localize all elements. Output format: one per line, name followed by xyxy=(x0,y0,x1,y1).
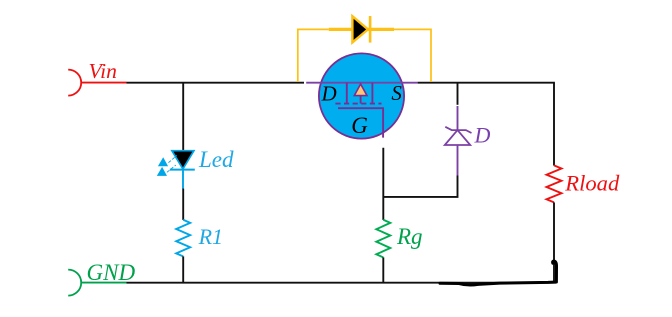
svg-text:D: D xyxy=(474,123,491,148)
diode D anode lead (purple) xyxy=(457,145,459,176)
diode D cathode lead (purple) xyxy=(457,106,459,130)
diode D triangle xyxy=(445,130,470,145)
LED cathode bar xyxy=(170,169,195,171)
wire top rail left (Vin node to MOSFET drain) xyxy=(127,82,305,84)
wire top rail right (MOSFET source to Rload corner) xyxy=(418,82,555,84)
body diode loop right wire xyxy=(394,29,431,82)
wire Rload to bottom corner xyxy=(553,202,555,282)
LED triangle xyxy=(172,151,194,169)
svg-text:D: D xyxy=(321,81,337,105)
wire GND green lead xyxy=(81,282,126,284)
svg-text:Rload: Rload xyxy=(564,171,620,196)
MOSFET Q1 body circle xyxy=(319,53,404,138)
LED light arrow 2 xyxy=(157,165,176,176)
wire gate branch (black) xyxy=(382,148,384,220)
svg-text:Rg: Rg xyxy=(396,224,423,249)
wire LED cathode to R1 xyxy=(182,189,184,220)
terminal GND arc xyxy=(68,270,81,296)
MOSFET channel dashed line xyxy=(335,103,381,105)
wire left branch (top rail to LED anode) xyxy=(182,83,184,151)
wire Rg to GND rail xyxy=(382,257,384,282)
body diode thick lead xyxy=(329,28,394,31)
body diode loop left wire (orange) xyxy=(298,29,329,82)
svg-text:S: S xyxy=(391,81,402,105)
wire drain-source rail through MOSFET (purple) xyxy=(306,82,417,84)
MOSFET drain lead xyxy=(346,83,348,104)
diode D cathode bar (schottky) xyxy=(445,127,471,133)
resistor Rload xyxy=(547,165,562,202)
svg-text:GND: GND xyxy=(87,260,136,285)
MOSFET source lead xyxy=(371,83,373,104)
body diode cathode bar xyxy=(369,16,372,43)
resistor R1 xyxy=(176,220,190,257)
wire Rload branch top xyxy=(553,83,555,166)
MOSFET gate bar and gate lead xyxy=(338,108,383,137)
svg-text:R1: R1 xyxy=(198,224,223,249)
svg-text:Vin: Vin xyxy=(89,59,117,83)
thick marker stroke over GND return xyxy=(440,261,557,285)
terminal Vin arc xyxy=(68,70,81,96)
MOSFET body arrow xyxy=(354,84,367,104)
LED light arrow 1 xyxy=(158,155,177,166)
wire Vin red lead xyxy=(81,82,126,84)
LED cathode stem xyxy=(182,170,184,189)
svg-text:G: G xyxy=(351,113,368,138)
wire R1 to GND rail xyxy=(182,256,184,282)
wire bottom rail xyxy=(127,282,557,284)
resistor Rg xyxy=(376,220,390,258)
wire gate to diode D branch xyxy=(383,176,457,197)
wire diode D to top rail xyxy=(457,83,459,105)
svg-text:Led: Led xyxy=(198,147,234,172)
body diode triangle xyxy=(352,16,368,42)
